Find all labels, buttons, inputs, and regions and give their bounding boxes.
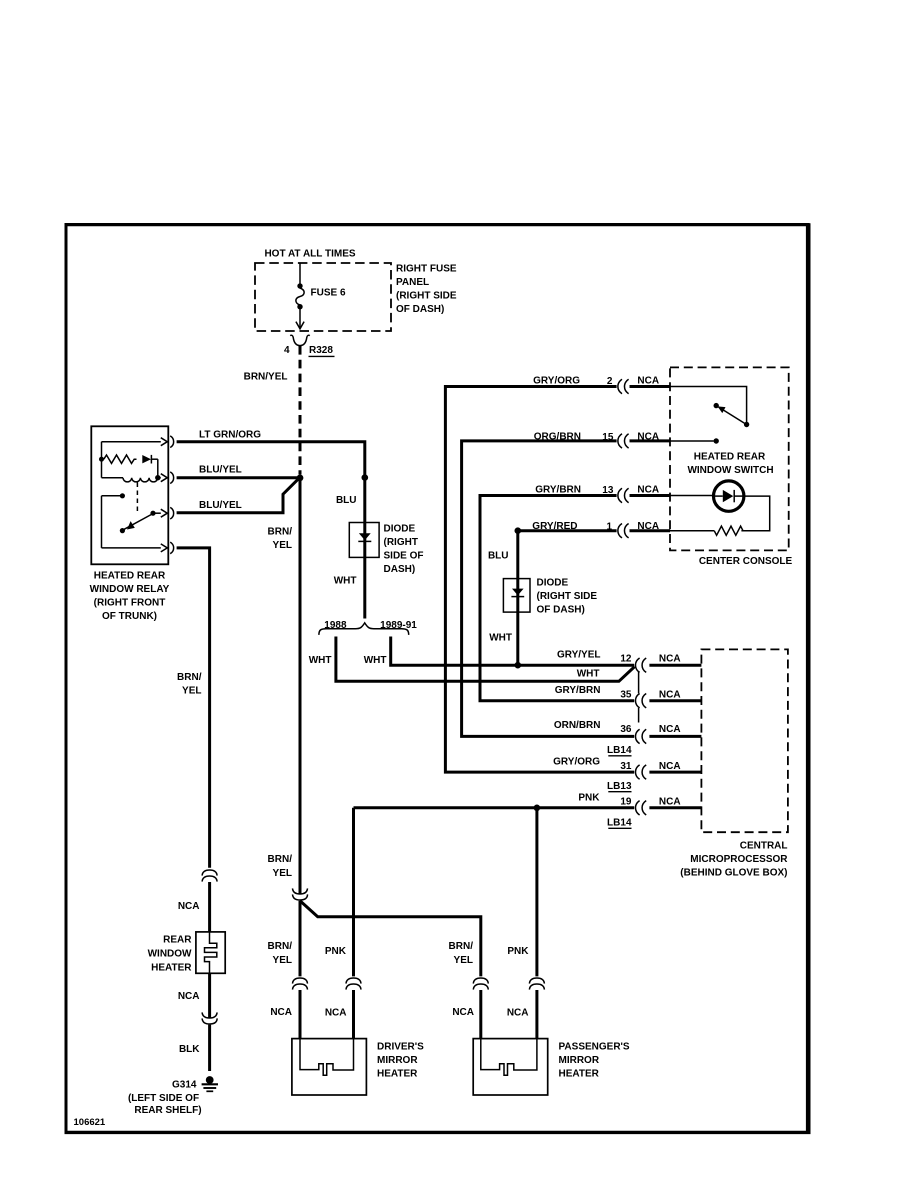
svg-text:WHT: WHT [334, 576, 357, 587]
passenger mirror heater box [473, 1039, 548, 1095]
node relay resistor junction [99, 457, 104, 462]
relay pin connector arcs [170, 436, 173, 448]
relay actuating dashed link [136, 483, 138, 515]
svg-text:YEL: YEL [454, 955, 473, 966]
svg-text:NCA: NCA [659, 761, 681, 772]
svg-text:WHT: WHT [364, 655, 387, 666]
driver mirror heater box [292, 1039, 367, 1095]
wire BRN/YEL main vertical below junction [299, 479, 302, 894]
svg-text:GRY/YEL: GRY/YEL [557, 650, 601, 661]
wire lamp to resistor [741, 496, 769, 531]
heater element driver [300, 1039, 354, 1076]
svg-text:MIRROR: MIRROR [559, 1055, 600, 1066]
svg-text:WINDOW SWITCH: WINDOW SWITCH [687, 465, 773, 476]
diode D2 symbol [512, 589, 524, 596]
wire BLU/YEL relay pin2 [177, 476, 297, 479]
svg-text:NCA: NCA [637, 432, 659, 443]
svg-text:1988: 1988 [324, 620, 347, 631]
svg-text:NCA: NCA [325, 1008, 347, 1019]
label CENTRAL MICROPROCESSOR (BEHIND GLOVE BOX) [680, 841, 788, 879]
svg-text:(RIGHT FRONT: (RIGHT FRONT [94, 598, 166, 609]
svg-text:GRY/ORG: GRY/ORG [553, 757, 600, 768]
svg-text:ORG/BRN: ORG/BRN [534, 432, 581, 443]
svg-text:HEATED REAR: HEATED REAR [694, 452, 766, 463]
svg-text:MIRROR: MIRROR [377, 1055, 418, 1066]
diode D1 box [349, 523, 379, 558]
wire below rear heater [208, 973, 211, 1017]
diode D1 symbol [359, 533, 371, 540]
svg-text:GRY/RED: GRY/RED [532, 521, 577, 532]
rear window heater box [196, 932, 225, 973]
svg-text:SIDE OF: SIDE OF [384, 551, 424, 562]
svg-text:LB13: LB13 [607, 781, 632, 792]
wire PNK down to driver heater [352, 808, 355, 977]
svg-text:(LEFT SIDE OF: (LEFT SIDE OF [128, 1093, 199, 1104]
svg-text:ORN/BRN: ORN/BRN [554, 720, 601, 731]
svg-text:15: 15 [602, 432, 614, 443]
wire PNK row19 horizontal [354, 806, 635, 809]
svg-text:HEATER: HEATER [559, 1069, 600, 1080]
wire BLU/YEL relay pin3 [177, 480, 298, 513]
svg-text:NCA: NCA [637, 521, 659, 532]
wire BLU to diode D2 [516, 531, 519, 663]
svg-text:PNK: PNK [578, 793, 600, 804]
connector inline on BRN/YEL [293, 888, 308, 900]
svg-text:REAR: REAR [163, 935, 192, 946]
svg-text:BLK: BLK [179, 1044, 200, 1055]
svg-text:CENTER CONSOLE: CENTER CONSOLE [699, 556, 793, 567]
switch lamp lead [670, 495, 714, 497]
label DIODE (RIGHT SIDE OF DASH) [384, 524, 424, 576]
wire BRN/YEL relay pin4 down [177, 548, 210, 868]
svg-text:DIODE: DIODE [384, 524, 416, 535]
svg-text:BRN/: BRN/ [268, 527, 293, 538]
svg-text:NCA: NCA [659, 797, 681, 808]
switch internal wire pin15 [670, 440, 714, 442]
svg-text:LB14: LB14 [607, 817, 632, 828]
svg-text:HEATED REAR: HEATED REAR [94, 571, 166, 582]
svg-text:19: 19 [620, 797, 632, 808]
svg-text:13: 13 [602, 485, 614, 496]
svg-text:NCA: NCA [178, 991, 200, 1002]
svg-text:2: 2 [607, 376, 613, 387]
svg-text:NCA: NCA [178, 901, 200, 912]
node BRN/YEL junction [297, 475, 304, 482]
svg-text:HEATER: HEATER [151, 963, 192, 974]
wire WHT 1988 branch [336, 637, 635, 682]
connector on rear heater feed [202, 870, 217, 882]
svg-text:WINDOW: WINDOW [148, 949, 192, 960]
svg-text:NCA: NCA [637, 485, 659, 496]
svg-text:BLU: BLU [488, 551, 509, 562]
connector driver BRN/YEL [293, 978, 308, 990]
svg-text:HEATER: HEATER [377, 1069, 418, 1080]
svg-text:LB14: LB14 [607, 745, 632, 756]
wire BRN/YEL dashed from fuse [299, 346, 302, 475]
wire GRY/RED [520, 529, 617, 532]
wire GRY/BRN switch lamp [480, 496, 634, 701]
heater element passenger [481, 1039, 537, 1076]
svg-text:NCA: NCA [659, 689, 681, 700]
svg-text:NCA: NCA [270, 1007, 292, 1018]
central microprocessor dashed box [701, 649, 788, 832]
svg-text:1: 1 [606, 521, 612, 532]
svg-text:NCA: NCA [452, 1007, 474, 1018]
svg-text:R328: R328 [309, 345, 333, 356]
label HEATED REAR WINDOW RELAY (RIGHT FRONT OF TRUNK) [90, 571, 170, 623]
label DIODE (RIGHT SIDE OF DASH) [537, 578, 598, 616]
svg-text:OF DASH): OF DASH) [537, 605, 585, 616]
indicator lamp circle [714, 481, 744, 511]
svg-text:PNK: PNK [325, 946, 347, 957]
relay coil [102, 477, 124, 479]
connector below rear heater [202, 1012, 217, 1024]
svg-text:OF TRUNK): OF TRUNK) [102, 611, 157, 622]
svg-text:31: 31 [620, 761, 632, 772]
svg-text:PASSENGER'S: PASSENGER'S [559, 1042, 630, 1053]
node WHT GRY/YEL junction [515, 662, 522, 669]
svg-text:DASH): DASH) [384, 564, 416, 575]
label RIGHT FUSE PANEL (RIGHT SIDE OF DASH) [396, 264, 457, 316]
svg-text:YEL: YEL [182, 686, 201, 697]
relay K box [91, 426, 168, 564]
relay switch fixed contact [120, 493, 125, 498]
resistor switch [714, 526, 743, 535]
wire GRY/ORG switch feed [445, 387, 634, 773]
svg-text:OF DASH): OF DASH) [396, 304, 444, 315]
switch arm [719, 407, 745, 423]
connector horn below fuse box [290, 335, 310, 345]
ground G314 [206, 1076, 214, 1084]
svg-text:WHT: WHT [489, 633, 512, 644]
svg-text:(RIGHT SIDE: (RIGHT SIDE [537, 591, 598, 602]
wire LT GRN/ORG from relay pin1 [177, 442, 365, 619]
connector pin2 switch [618, 379, 629, 393]
wire BRN/YEL continues to driver heater [299, 901, 302, 977]
svg-text:FUSE 6: FUSE 6 [311, 288, 346, 299]
svg-text:REAR SHELF): REAR SHELF) [134, 1105, 201, 1116]
svg-text:GRY/ORG: GRY/ORG [533, 376, 580, 387]
svg-text:MICROPROCESSOR: MICROPROCESSOR [690, 854, 788, 865]
svg-text:RIGHT FUSE: RIGHT FUSE [396, 264, 457, 275]
svg-text:BLU/YEL: BLU/YEL [199, 465, 242, 476]
connector passenger BRN/YEL [473, 978, 488, 990]
node GRY/RED BLU junction [515, 527, 522, 534]
label REAR WINDOW HEATER [148, 935, 193, 974]
relay switch arm [123, 514, 152, 530]
node PNK junction [534, 805, 541, 812]
svg-text:PNK: PNK [507, 946, 529, 957]
svg-text:GRY/BRN: GRY/BRN [555, 685, 601, 696]
svg-text:1989-91: 1989-91 [380, 620, 417, 631]
svg-text:DIODE: DIODE [537, 578, 569, 589]
wire ORG/BRN switch feed [462, 441, 635, 737]
connector link line [638, 672, 640, 693]
svg-text:HOT AT ALL TIMES: HOT AT ALL TIMES [264, 248, 355, 259]
svg-text:12: 12 [620, 653, 632, 664]
label DRIVER'S MIRROR HEATER [377, 1042, 424, 1080]
node on BLU line [362, 474, 369, 481]
svg-text:CENTRAL: CENTRAL [740, 841, 788, 852]
svg-text:4: 4 [284, 345, 290, 356]
fuse F6 [296, 263, 304, 329]
diode relay internal [142, 455, 151, 463]
svg-text:NCA: NCA [659, 653, 681, 664]
heater element rear window [205, 932, 217, 973]
wire WHT 1989-91 branch [391, 637, 515, 666]
svg-text:DRIVER'S: DRIVER'S [377, 1042, 424, 1053]
wire BRN/YEL branch diagonal to passenger feed [300, 901, 481, 977]
lamp diode symbol [714, 495, 723, 497]
label PASSENGER'S MIRROR HEATER [559, 1042, 630, 1080]
svg-text:BLU/YEL: BLU/YEL [199, 500, 242, 511]
border frame [65, 223, 68, 1134]
svg-text:106621: 106621 [74, 1117, 106, 1128]
svg-text:WINDOW RELAY: WINDOW RELAY [90, 584, 170, 595]
svg-text:GRY/BRN: GRY/BRN [535, 485, 581, 496]
svg-text:NCA: NCA [637, 376, 659, 387]
heated rear window switch dashed box [670, 367, 789, 550]
svg-text:BRN/: BRN/ [449, 941, 474, 952]
svg-text:NCA: NCA [507, 1008, 529, 1019]
svg-text:(BEHIND GLOVE BOX): (BEHIND GLOVE BOX) [680, 868, 787, 879]
wire PNK down to passenger heater [535, 808, 538, 977]
svg-text:G314: G314 [172, 1080, 197, 1091]
svg-text:BRN/YEL: BRN/YEL [244, 372, 288, 383]
svg-text:YEL: YEL [273, 540, 292, 551]
svg-text:YEL: YEL [273, 868, 292, 879]
svg-text:BLU: BLU [336, 495, 357, 506]
relay internal wire to pin1 [102, 441, 161, 443]
svg-text:PANEL: PANEL [396, 277, 429, 288]
resistor relay suppression [104, 455, 137, 463]
svg-text:YEL: YEL [273, 955, 292, 966]
svg-text:35: 35 [620, 689, 632, 700]
year split brace [319, 623, 409, 635]
fuse panel dashed box [255, 263, 391, 331]
resistor lead to pin1 [670, 530, 714, 532]
svg-text:BRN/: BRN/ [268, 854, 293, 865]
svg-text:36: 36 [620, 724, 632, 735]
svg-text:NCA: NCA [659, 724, 681, 735]
svg-text:WHT: WHT [577, 669, 600, 680]
svg-text:WHT: WHT [309, 655, 332, 666]
diode D2 box [503, 579, 530, 613]
svg-text:LT GRN/ORG: LT GRN/ORG [199, 430, 261, 441]
svg-text:BRN/: BRN/ [268, 941, 293, 952]
svg-text:(RIGHT: (RIGHT [384, 537, 418, 548]
switch internal wire pin2 [670, 387, 747, 423]
svg-text:BRN/: BRN/ [177, 672, 202, 683]
svg-text:(RIGHT SIDE: (RIGHT SIDE [396, 291, 457, 302]
wire GRY/YEL row12 [518, 664, 634, 667]
